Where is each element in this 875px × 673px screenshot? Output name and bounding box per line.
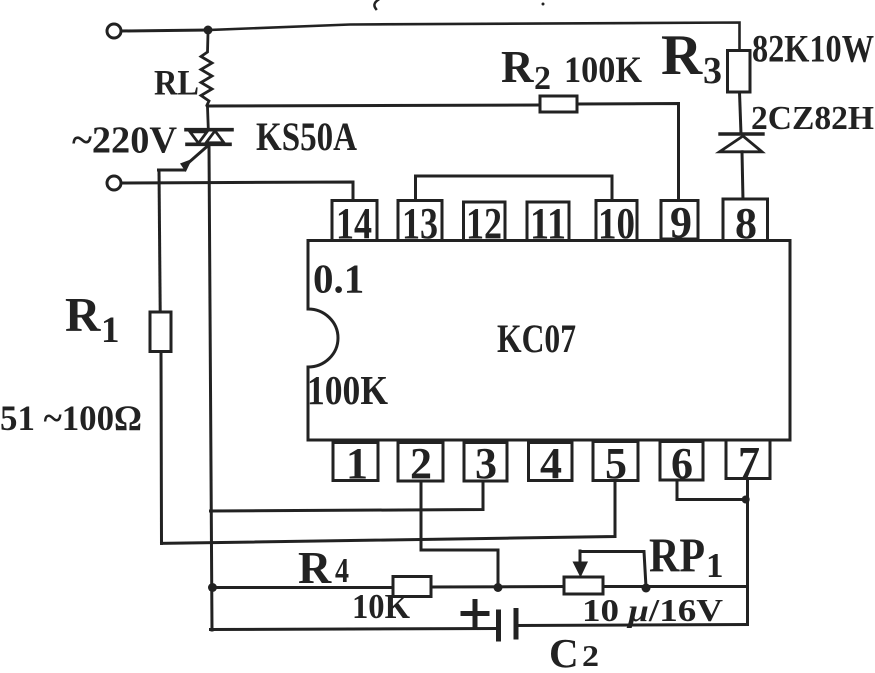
wire triac MT2 vertical down [209,146,212,630]
wire T2 to pin14 [122,182,354,201]
wire pin13 to pin10 bridge [416,176,613,201]
svg-text:R: R [298,542,332,593]
pin 3 [464,439,507,488]
svg-text:KS50A: KS50A [256,114,357,159]
pin 4 [529,439,573,488]
svg-text:1: 1 [706,546,724,585]
svg-text:3: 3 [475,439,497,488]
wire bottom rail left [211,629,498,630]
svg-text:KC07: KC07 [497,316,576,361]
wire R4 line left [213,586,394,589]
svg-text:~220V: ~220V [72,120,178,162]
wire top rail to R3 [208,23,740,51]
svg-text:6: 6 [671,439,693,488]
svg-text:100K: 100K [307,367,388,413]
wire R4 to RP1 [431,585,564,589]
svg-text:14: 14 [336,199,372,248]
pin 5 [593,439,638,488]
scan speck dots [542,3,545,6]
svg-text:R: R [661,24,703,87]
svg-text:2: 2 [582,638,599,668]
resistor R4 [393,577,431,597]
triac V1 KS50A [186,130,232,145]
svg-text:1: 1 [346,439,368,488]
svg-text:9: 9 [670,198,692,247]
wire R2 to pin9 [577,104,679,201]
terminal T1 [107,24,121,38]
pin 13 [398,199,442,248]
resistor R2 [540,96,577,112]
wire T1 to top junction [122,30,209,31]
junction top node [204,26,213,35]
svg-text:2: 2 [534,60,551,97]
svg-text:R: R [65,287,101,342]
gate wire diagonal [187,147,207,165]
potentiometer RP1 body [564,577,603,594]
junction wiper node [642,584,651,593]
resistor RL (zigzag) [201,33,212,129]
RP1 wiper wire [580,552,646,588]
svg-text:4: 4 [540,439,562,488]
svg-text:0.1: 0.1 [313,256,364,302]
wire RL bottom to R2 [208,105,540,106]
svg-text:10 μ/16V: 10 μ/16V [582,592,723,628]
scan speck arc top [374,0,378,9]
RP1 wiper arrow [579,551,582,564]
wire R1 to pin5 line [160,352,164,544]
pin 12 [464,199,506,248]
pin 11 [527,199,569,248]
svg-text:13: 13 [402,199,438,248]
svg-text:RP: RP [649,528,705,583]
svg-text:51 ~100Ω: 51 ~100Ω [0,398,142,438]
junction pin2 node [494,583,503,592]
wire R3 to diode [740,92,742,134]
wire gate to R1 [159,170,160,312]
wire RP1 to pin7 rail [603,585,748,588]
wire pin6 to pin7 rail [677,481,746,500]
svg-text:3: 3 [703,50,722,92]
junction pin6/7 [742,496,750,504]
svg-text:4: 4 [335,551,349,590]
svg-text:2CZ82H: 2CZ82H [751,100,874,137]
pin 1 [333,439,378,488]
wire pin2 to R4 node [421,481,498,588]
capacitor C2 [499,611,517,640]
pin 14 [332,199,377,248]
pin 9 [661,198,698,247]
pin 10 [596,199,637,248]
wire diode to pin8 [742,152,743,201]
gate arrowhead [180,159,192,172]
wire pin3 line to MT2 rail [211,481,484,511]
wire pin7 rail vertical [746,479,749,625]
svg-text:1: 1 [101,310,120,351]
svg-text:12: 12 [466,199,502,248]
pin 8 [723,199,768,248]
svg-text:C: C [549,630,579,668]
svg-text:RL: RL [154,63,199,103]
wire pin5 line to R1 [162,481,616,544]
capacitor C2 plus sign [463,602,487,626]
svg-text:11: 11 [530,199,566,248]
svg-text:10K: 10K [352,587,410,626]
terminal T2 [107,176,121,190]
resistor R1 [150,312,171,352]
wire bottom rail right [517,625,748,626]
svg-text:R: R [501,42,534,92]
resistor R3 [728,51,751,93]
junction MT2/R4 [208,583,217,592]
svg-text:10: 10 [598,199,635,248]
IC U1 KC07 body [308,241,790,441]
pin 2 [398,439,443,488]
svg-text:8: 8 [735,199,757,248]
pin 6 [660,439,703,488]
pin 7 [726,438,770,487]
svg-text:82K10W: 82K10W [752,28,874,71]
svg-text:100K: 100K [564,50,642,91]
diode VD 2CZ82H [720,134,764,152]
gate wire horizontal [159,169,185,172]
